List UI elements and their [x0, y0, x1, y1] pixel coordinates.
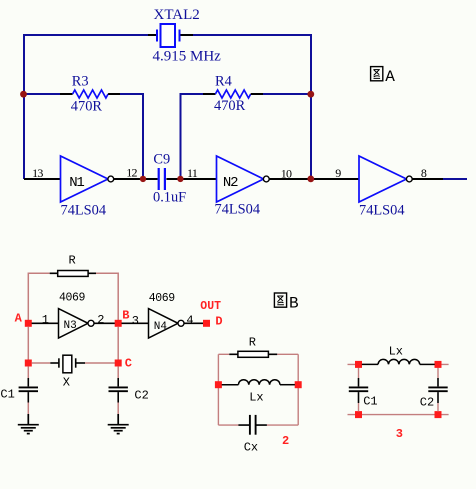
node square subckt2 right [295, 381, 302, 388]
resistor R body [58, 271, 88, 277]
capacitor C1 top lead [27, 378, 29, 386]
wire: pin 3 into N4 [122, 322, 149, 324]
svg-text:XTAL2: XTAL2 [154, 7, 200, 23]
wire: vertical from C9 right node up to R4 row [181, 94, 204, 179]
crystal XTAL2 left pin [148, 34, 157, 36]
svg-text:8: 8 [421, 166, 427, 180]
node square subckt3 bottom-left [355, 411, 362, 418]
svg-text:4.915 MHz: 4.915 MHz [153, 49, 222, 65]
svg-text:R3: R3 [72, 74, 89, 90]
svg-text:470R: 470R [214, 98, 246, 114]
svg-text:R4: R4 [215, 74, 232, 90]
svg-text:C: C [125, 357, 132, 371]
svg-text:N2: N2 [223, 175, 238, 191]
wire: fig B top-right corner (R to B) [96, 273, 118, 320]
wire: subckt2 red loop left side [217, 354, 219, 425]
op-amp U3: third inverter triangle [359, 156, 407, 202]
wire: N3 output to node B [94, 322, 115, 324]
resistor R pins [50, 272, 96, 274]
svg-text:10: 10 [281, 167, 292, 181]
inductor Lx (subckt3) coil [378, 359, 420, 364]
inverter N1 output bubble [108, 176, 114, 182]
node square subckt2 left [215, 381, 222, 388]
op-amp U1: inverter N1 triangle [61, 156, 109, 202]
label 图B box glyph [274, 293, 286, 307]
op-amp U2: inverter N2 triangle [217, 156, 264, 202]
node square subckt3 top-left [355, 361, 362, 368]
capacitor C2 (subckt3) top lead [437, 378, 439, 386]
capacitor C2 top lead [117, 378, 119, 386]
inductor Lx (subckt2) right pin [280, 384, 295, 386]
wire: left node down to C1 [27, 366, 29, 378]
svg-text:Cx: Cx [244, 440, 258, 454]
svg-text:C1: C1 [0, 387, 14, 401]
wire: A down to crystal row [27, 327, 29, 360]
capacitor C9 left lead [143, 178, 158, 180]
svg-text:4069: 4069 [59, 291, 86, 304]
wire: fig B top-left corner (A up to R) [28, 273, 49, 320]
svg-text:C2: C2 [420, 395, 434, 409]
svg-text:2: 2 [97, 313, 104, 327]
resistor R3 left pin [60, 93, 73, 95]
svg-text:OUT: OUT [200, 300, 221, 313]
capacitor Cx plates [250, 415, 256, 435]
wire: B down to C [117, 327, 119, 360]
capacitor C1 plates [19, 387, 38, 391]
resistor R3 zigzag [73, 90, 109, 98]
svg-text:A: A [385, 68, 395, 86]
capacitor Cx pins [238, 424, 267, 426]
wire: C1 to bottom-left square [358, 403, 360, 411]
svg-text:R: R [249, 335, 256, 349]
svg-text:2: 2 [282, 434, 289, 448]
wire: R4 right segment [263, 93, 311, 95]
crystal X left pin [50, 362, 59, 364]
capacitor C1 bottom lead [27, 392, 29, 402]
svg-text:N1: N1 [69, 175, 84, 191]
wire: subckt3 left vertical [358, 368, 360, 378]
svg-text:Lx: Lx [249, 390, 263, 404]
wire: pin 8 output black [412, 178, 443, 180]
svg-text:74LS04: 74LS04 [61, 202, 107, 218]
inverter N3 output bubble [88, 320, 94, 326]
resistor R (subckt2) pins [229, 353, 277, 355]
wire: pin 13 input to N1 [24, 178, 61, 180]
label 图A box glyph [371, 67, 383, 81]
svg-text:N3: N3 [64, 320, 77, 332]
wire: subckt2 top side segments [218, 353, 298, 355]
crystal XTAL2 right pin [180, 34, 194, 36]
capacitor C9 plates [159, 168, 165, 190]
crystal X body [59, 355, 76, 373]
wire: subckt3 stubs [348, 364, 449, 414]
junction dot: R3 left [20, 91, 27, 98]
inductor Lx (subckt2) coil [238, 380, 280, 385]
svg-text:3: 3 [396, 427, 403, 441]
svg-text:C2: C2 [134, 388, 148, 402]
inverter N2 output bubble [263, 176, 269, 182]
wire: pin 1 into N3 [32, 322, 59, 324]
svg-text:9: 9 [335, 166, 341, 180]
wire: subckt2 bottom side segments [218, 424, 298, 426]
capacitor C2 plates [109, 387, 128, 391]
svg-text:0.1uF: 0.1uF [153, 189, 186, 205]
wire: left vertical + top-left horizontal [24, 35, 148, 179]
wire: output navy tail [443, 178, 467, 180]
junction dot: pin10 node [307, 176, 314, 183]
capacitor C9 right lead [166, 178, 180, 180]
inverter N3 triangle [59, 309, 89, 338]
capacitor C2 (subckt3) bottom lead [437, 392, 439, 403]
third inverter output bubble [406, 176, 412, 182]
capacitor C1 (subckt3) top lead [358, 378, 360, 386]
junction dot: C9 right node [177, 176, 183, 182]
svg-text:D: D [215, 315, 222, 329]
wire: R3 row left segment [24, 93, 60, 95]
resistor R4 zigzag [215, 90, 250, 98]
svg-text:A: A [15, 312, 23, 326]
wire: N1 output pin 12 [114, 178, 144, 180]
svg-text:R: R [69, 253, 76, 267]
crystal XTAL2 body [157, 24, 180, 47]
wire: C1 to ground [27, 403, 29, 415]
node B square [115, 320, 122, 327]
svg-text:74LS04: 74LS04 [215, 201, 261, 217]
inverter N4 output bubble [178, 320, 184, 326]
inverter N4 triangle [149, 309, 179, 338]
wire: crystal X to node C [85, 362, 115, 364]
svg-text:13: 13 [32, 166, 43, 180]
crystal X right pin [76, 362, 85, 364]
svg-text:B: B [289, 294, 299, 312]
junction dot: C9 left node [140, 176, 146, 182]
capacitor C2 (subckt3) plates [428, 387, 447, 391]
node square left of crystal X [25, 360, 32, 367]
resistor R (subckt2) body [238, 351, 269, 357]
resistor R4 right pin [251, 93, 263, 95]
wire: C down to C2 [117, 366, 119, 378]
node square subckt3 top-right [435, 361, 442, 368]
inductor Lx (subckt2) left pin [222, 384, 239, 386]
wire: top-right horizontal + right vertical [193, 35, 311, 179]
resistor R4 left pin [203, 93, 216, 95]
capacitor C1 (subckt3) bottom lead [358, 392, 360, 403]
wire: subckt3 bottom side [362, 414, 435, 416]
svg-text:C9: C9 [153, 151, 170, 167]
ground (C1) [18, 414, 39, 434]
ground (C2) [108, 414, 129, 434]
svg-text:4: 4 [186, 314, 193, 328]
wire: subckt2 red loop right side [297, 354, 299, 425]
inductor Lx (subckt3) right pin [420, 363, 435, 365]
wire: C2 to ground [117, 403, 119, 415]
wire: node to crystal X [32, 362, 51, 364]
wire: N4 output to node D [184, 322, 203, 324]
node square subckt3 bottom-right [435, 411, 442, 418]
wire: subckt3 right vertical [437, 368, 439, 378]
svg-text:4069: 4069 [149, 292, 176, 305]
inductor Lx (subckt3) left pin [362, 363, 378, 365]
svg-text:1: 1 [42, 313, 49, 327]
svg-text:3: 3 [132, 314, 139, 328]
svg-text:74LS04: 74LS04 [359, 203, 405, 219]
node D square [203, 320, 210, 327]
wire: C2 to bottom-right square [437, 403, 439, 411]
svg-text:C1: C1 [363, 394, 377, 408]
junction dot: R4 right [307, 91, 314, 98]
capacitor C1 (subckt3) plates [349, 387, 368, 391]
svg-text:470R: 470R [71, 98, 103, 114]
node A square [25, 320, 32, 327]
svg-text:Lx: Lx [389, 345, 403, 359]
svg-text:12: 12 [126, 166, 137, 180]
capacitor C2 bottom lead [117, 392, 119, 402]
svg-text:B: B [122, 309, 129, 323]
svg-text:N4: N4 [154, 321, 168, 333]
wire: pin 9 input to third inverter [311, 178, 359, 180]
svg-text:X: X [63, 376, 70, 390]
wire: N2 output pin 10 [269, 178, 311, 180]
wire: pin 11 input to N2 [181, 178, 217, 180]
svg-text:11: 11 [187, 166, 198, 180]
resistor R3 right pin [108, 93, 120, 95]
wire: R3 right to vertical down to C9 node [120, 94, 143, 179]
node C square [115, 360, 122, 367]
